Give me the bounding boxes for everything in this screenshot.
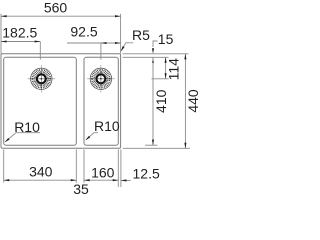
dim 340 <box>4 179 77 181</box>
svg-text:35: 35 <box>73 181 89 197</box>
dim 15 arrows <box>152 48 154 54</box>
sink rim outer rectangle R5 <box>1 54 121 149</box>
label R5 leader <box>121 43 133 51</box>
label R10 left leader <box>5 133 40 142</box>
svg-text:560: 560 <box>44 0 68 15</box>
svg-text:R10: R10 <box>14 119 40 135</box>
svg-text:440: 440 <box>185 89 200 113</box>
right bowl R10 <box>84 57 118 145</box>
dim 560 <box>1 15 121 17</box>
dim 440 <box>184 54 186 149</box>
dim 92.5 <box>67 42 121 44</box>
left bowl R10 <box>4 57 77 145</box>
dim 12.5 <box>121 179 131 181</box>
svg-text:15: 15 <box>158 31 174 47</box>
svg-text:92.5: 92.5 <box>70 23 97 39</box>
dim 114 <box>165 57 167 79</box>
svg-text:R10: R10 <box>94 118 120 134</box>
svg-text:340: 340 <box>29 163 53 179</box>
drain left crosshair <box>28 65 56 93</box>
dim 182.5 <box>1 41 40 43</box>
drain right <box>90 68 111 89</box>
label R10 right leader <box>86 133 98 140</box>
extension lines bottom <box>4 150 121 188</box>
drain right crosshair <box>87 65 115 93</box>
svg-text:114: 114 <box>166 58 182 81</box>
dim 160 <box>84 179 118 181</box>
svg-text:182.5: 182.5 <box>2 25 37 41</box>
extension lines top <box>1 14 121 60</box>
svg-text:160: 160 <box>91 165 115 181</box>
svg-text:410: 410 <box>153 89 169 113</box>
dim 15 leader <box>153 41 158 47</box>
svg-text:12.5: 12.5 <box>133 165 160 181</box>
drain left <box>31 68 52 89</box>
svg-text:R5: R5 <box>132 27 150 43</box>
extension lines right <box>123 54 191 149</box>
dim 410 <box>152 57 154 145</box>
